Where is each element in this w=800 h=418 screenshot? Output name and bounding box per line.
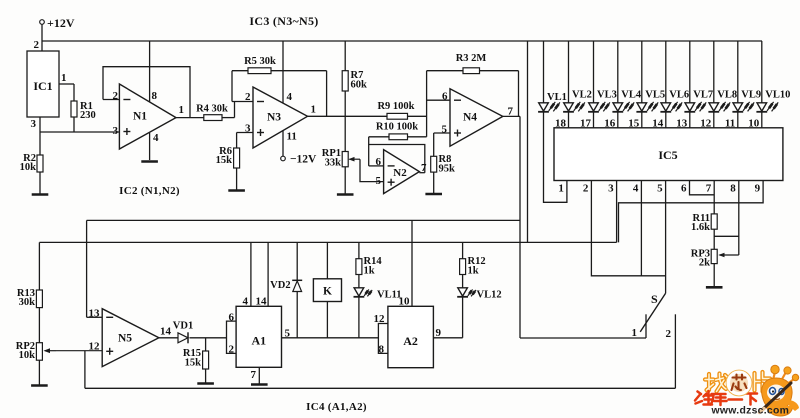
- svg-text:30k: 30k: [19, 297, 36, 308]
- svg-text:5: 5: [442, 124, 448, 136]
- svg-text:5: 5: [376, 175, 382, 187]
- svg-text:7: 7: [421, 162, 427, 174]
- svg-text:7: 7: [251, 369, 257, 381]
- svg-text:IC3 (N3~N5): IC3 (N3~N5): [249, 14, 318, 28]
- svg-text:1: 1: [311, 104, 317, 116]
- svg-text:IC2 (N1,N2): IC2 (N1,N2): [119, 185, 180, 197]
- svg-text:VD1: VD1: [173, 321, 193, 332]
- svg-text:1: 1: [61, 72, 67, 84]
- svg-text:7: 7: [508, 106, 514, 118]
- svg-text:2: 2: [34, 39, 40, 51]
- svg-text:230: 230: [80, 110, 96, 121]
- svg-text:10k: 10k: [20, 162, 37, 173]
- svg-text:1: 1: [179, 104, 185, 116]
- svg-text:K: K: [323, 286, 332, 298]
- svg-text:VL8: VL8: [717, 90, 737, 101]
- svg-text:VL1: VL1: [547, 92, 567, 103]
- svg-text:33k: 33k: [325, 158, 342, 169]
- svg-text:N1: N1: [133, 111, 147, 123]
- svg-text:VL7: VL7: [693, 90, 713, 101]
- svg-text:2: 2: [583, 183, 589, 195]
- svg-text:6: 6: [442, 91, 448, 103]
- svg-text:3: 3: [245, 123, 251, 135]
- svg-text:N2: N2: [393, 167, 407, 179]
- svg-text:5: 5: [285, 328, 291, 340]
- svg-text:1: 1: [632, 327, 638, 339]
- svg-text:14: 14: [256, 296, 268, 308]
- svg-text:14: 14: [160, 326, 172, 338]
- svg-text:4: 4: [633, 183, 639, 195]
- svg-text:3: 3: [31, 118, 37, 130]
- svg-text:13: 13: [89, 308, 101, 320]
- svg-text:A1: A1: [251, 334, 266, 348]
- svg-text:VL9: VL9: [741, 90, 761, 101]
- svg-text:IC5: IC5: [658, 148, 677, 162]
- svg-text:3: 3: [608, 183, 614, 195]
- svg-text:15k: 15k: [216, 155, 233, 166]
- svg-text:VL3: VL3: [597, 90, 617, 101]
- svg-text:9: 9: [755, 183, 761, 195]
- svg-text:www.dzsc.com: www.dzsc.com: [711, 406, 790, 417]
- svg-text:R10 100k: R10 100k: [376, 122, 418, 133]
- svg-text:95k: 95k: [439, 164, 456, 175]
- svg-text:VL5: VL5: [645, 90, 665, 101]
- svg-text:12: 12: [89, 341, 101, 353]
- svg-text:A2: A2: [403, 334, 418, 348]
- svg-text:S: S: [651, 292, 658, 306]
- svg-text:IC4 (A1,A2): IC4 (A1,A2): [306, 401, 367, 413]
- svg-text:N5: N5: [118, 333, 132, 345]
- svg-text:VL2: VL2: [572, 90, 592, 101]
- svg-text:8: 8: [730, 183, 736, 195]
- svg-text:1.6k: 1.6k: [691, 222, 710, 233]
- svg-text:10: 10: [399, 296, 411, 308]
- svg-text:6: 6: [229, 312, 235, 324]
- svg-text:9: 9: [436, 327, 442, 339]
- svg-text:10k: 10k: [19, 350, 36, 361]
- svg-text:4: 4: [243, 296, 249, 308]
- svg-text:11: 11: [287, 131, 297, 143]
- svg-text:VD2: VD2: [270, 280, 290, 291]
- svg-text:R4 30k: R4 30k: [196, 104, 228, 115]
- svg-text:N3: N3: [267, 112, 281, 124]
- svg-text:2: 2: [229, 344, 235, 356]
- svg-text:1: 1: [558, 183, 564, 195]
- svg-text:15k: 15k: [185, 358, 202, 369]
- svg-text:R9 100k: R9 100k: [377, 101, 414, 112]
- svg-text:VL6: VL6: [669, 90, 689, 101]
- svg-text:6: 6: [681, 183, 687, 195]
- svg-text:7: 7: [706, 183, 712, 195]
- svg-text:1k: 1k: [364, 266, 375, 277]
- svg-text:VL10: VL10: [765, 90, 790, 101]
- svg-text:12: 12: [374, 313, 386, 325]
- svg-text:VL4: VL4: [621, 90, 642, 101]
- svg-text:8: 8: [152, 90, 158, 102]
- svg-text:8: 8: [379, 343, 385, 355]
- svg-text:2: 2: [245, 91, 251, 103]
- svg-text:R5 30k: R5 30k: [244, 56, 276, 67]
- svg-text:N4: N4: [463, 112, 477, 124]
- svg-text:IC1: IC1: [33, 79, 52, 93]
- svg-text:−12V: −12V: [290, 154, 317, 166]
- svg-text:4: 4: [287, 91, 293, 103]
- svg-text:60k: 60k: [351, 80, 368, 91]
- svg-text:1k: 1k: [468, 266, 479, 277]
- svg-text:3: 3: [113, 125, 119, 137]
- svg-text:2: 2: [113, 90, 119, 102]
- svg-text:VL12: VL12: [477, 290, 502, 301]
- svg-text:6: 6: [376, 156, 382, 168]
- svg-text:5: 5: [657, 183, 663, 195]
- svg-text:2: 2: [666, 328, 672, 340]
- svg-text:+12V: +12V: [47, 16, 75, 30]
- svg-text:4: 4: [153, 132, 159, 144]
- svg-text:2k: 2k: [699, 258, 710, 269]
- svg-text:R3 2M: R3 2M: [456, 53, 487, 64]
